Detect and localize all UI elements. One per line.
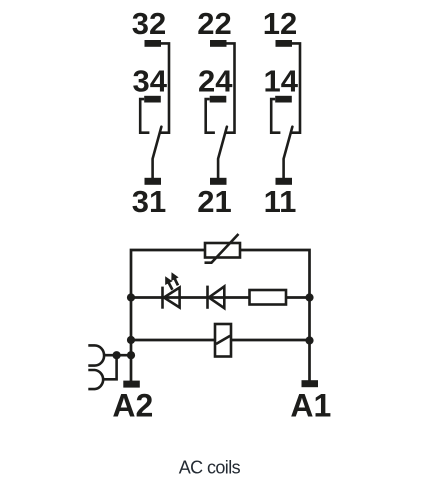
junction node A2 rail — [127, 351, 135, 359]
wire lower branch — [131, 339, 310, 342]
wire socket lower to junction — [104, 355, 117, 379]
wire 32 to contact — [160, 43, 169, 132]
varistor — [205, 243, 240, 258]
svg-text:34: 34 — [132, 63, 167, 98]
terminal pad 24 — [210, 96, 227, 103]
svg-text:32: 32 — [132, 6, 166, 41]
resistor — [250, 290, 287, 305]
junction node right-lower — [305, 336, 313, 344]
junction node right-middle — [305, 293, 313, 301]
changeover contact pole 2 (22/24/21) — [197, 6, 234, 219]
terminal pad 34 — [144, 96, 161, 103]
svg-text:31: 31 — [132, 184, 166, 219]
wire 24 bracket — [206, 99, 215, 133]
junction node left-middle — [127, 293, 135, 301]
svg-text:22: 22 — [197, 6, 231, 41]
switch blade 31 — [153, 127, 162, 179]
svg-text:AC coils: AC coils — [179, 458, 241, 478]
switch blade 21 — [218, 127, 227, 179]
wire socket upper to A2 rail — [104, 354, 131, 357]
svg-text:A1: A1 — [290, 388, 331, 424]
terminal pad 14 — [275, 96, 292, 103]
wire 14 bracket — [271, 99, 280, 133]
svg-text:12: 12 — [263, 6, 297, 41]
wire 22 to contact — [226, 43, 235, 132]
plug-in socket contact upper — [88, 345, 104, 365]
LED — [161, 287, 164, 309]
junction node left-lower — [127, 336, 135, 344]
terminal pad A1 — [302, 380, 319, 387]
svg-text:11: 11 — [264, 184, 297, 219]
svg-text:21: 21 — [197, 184, 231, 219]
svg-text:24: 24 — [198, 63, 233, 98]
terminal pad A2 — [123, 381, 140, 388]
wire 12 to contact — [291, 43, 300, 132]
wire coil circuit outer loop — [131, 250, 310, 382]
plug-in socket contact lower — [88, 370, 103, 389]
terminal pad 12 — [276, 40, 293, 47]
junction node socket wire — [113, 351, 121, 359]
terminal pad 32 — [145, 40, 162, 47]
terminal pad 22 — [210, 40, 227, 47]
wire 34 bracket — [140, 99, 149, 133]
terminal pad 11 — [276, 178, 293, 185]
relay coil — [215, 324, 231, 357]
wire middle branch — [131, 296, 310, 299]
LED light arrows — [168, 281, 173, 290]
changeover contact pole 3 (32/34/31) — [132, 6, 169, 219]
switch blade 11 — [284, 127, 293, 179]
svg-text:14: 14 — [263, 63, 298, 98]
terminal pad 21 — [210, 178, 227, 185]
terminal pad 31 — [145, 178, 162, 185]
changeover contact pole 1 (12/14/11) — [263, 6, 300, 219]
svg-text:A2: A2 — [112, 388, 153, 424]
diode — [206, 286, 209, 309]
